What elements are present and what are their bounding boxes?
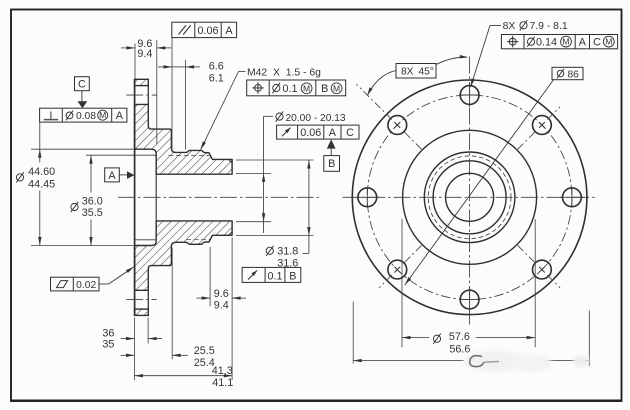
svg-text:20.00 - 20.13: 20.00 - 20.13 — [286, 113, 346, 124]
svg-text:44.45: 44.45 — [28, 178, 55, 190]
svg-text:44.60: 44.60 — [28, 166, 55, 178]
svg-text:A: A — [116, 110, 124, 122]
svg-text:9.4: 9.4 — [137, 48, 152, 60]
svg-text:7.9 - 8.1: 7.9 - 8.1 — [530, 21, 568, 32]
svg-text:0.1: 0.1 — [267, 270, 282, 282]
svg-text:A: A — [579, 37, 587, 49]
svg-text:0.08: 0.08 — [76, 111, 96, 122]
svg-text:9.6: 9.6 — [214, 288, 229, 300]
svg-text:41.3: 41.3 — [212, 365, 233, 377]
svg-text:31.8: 31.8 — [277, 245, 298, 257]
svg-text:8X: 8X — [401, 67, 414, 78]
svg-text:0.02: 0.02 — [76, 280, 96, 291]
svg-text:0.14: 0.14 — [536, 37, 557, 49]
svg-text:M42 X 1.5 - 6g: M42 X 1.5 - 6g — [247, 68, 321, 79]
svg-text:M: M — [303, 83, 310, 93]
svg-text:6.6: 6.6 — [209, 60, 224, 72]
svg-text:B: B — [289, 270, 296, 282]
svg-text:0.1: 0.1 — [282, 83, 297, 95]
svg-text:M: M — [562, 37, 569, 47]
svg-text:A: A — [108, 170, 116, 182]
svg-text:M: M — [99, 110, 106, 120]
svg-text:M: M — [333, 83, 340, 93]
svg-text:B: B — [321, 83, 328, 95]
svg-text:36.0: 36.0 — [82, 195, 103, 207]
svg-text:6.1: 6.1 — [209, 72, 224, 84]
svg-text:8X: 8X — [503, 21, 516, 32]
svg-text:M: M — [605, 37, 612, 47]
svg-text:C: C — [78, 79, 86, 91]
svg-text:A: A — [225, 25, 233, 37]
svg-text:C: C — [346, 127, 354, 139]
svg-text:9.4: 9.4 — [214, 299, 229, 311]
svg-text:41.1: 41.1 — [212, 377, 233, 389]
svg-text:0.06: 0.06 — [300, 127, 321, 139]
svg-text:0.06: 0.06 — [197, 25, 218, 37]
svg-text:25.5: 25.5 — [194, 345, 215, 357]
svg-text:A: A — [329, 127, 337, 139]
svg-text:56.6: 56.6 — [449, 343, 470, 355]
svg-text:86: 86 — [568, 69, 580, 80]
svg-text:45°: 45° — [419, 67, 434, 78]
svg-text:B: B — [328, 158, 335, 170]
svg-text:C: C — [593, 37, 601, 49]
svg-text:57.6: 57.6 — [449, 331, 470, 343]
svg-text:35.5: 35.5 — [82, 207, 103, 219]
svg-text:35: 35 — [102, 338, 114, 350]
